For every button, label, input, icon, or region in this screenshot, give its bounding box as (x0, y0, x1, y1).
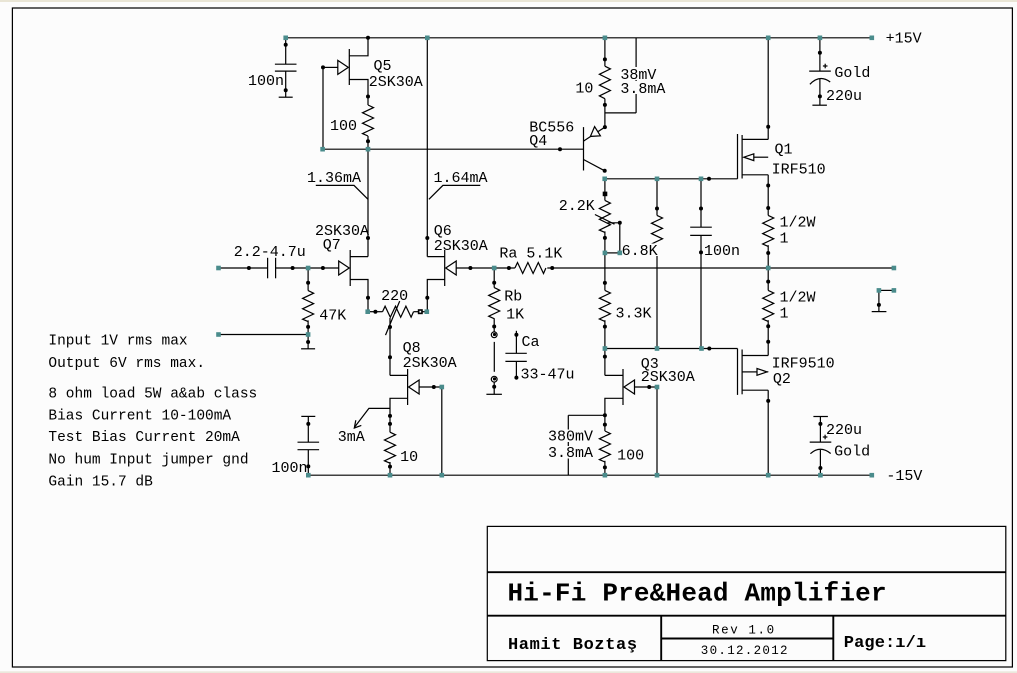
terminal T-bar output (872, 311, 887, 313)
wire 1ohm to output rail (767, 245, 769, 268)
net square -15 rail at Q2 (766, 473, 771, 478)
wire Q2 drain down to rail (767, 390, 769, 475)
svg-text:2SK30A: 2SK30A (403, 355, 457, 372)
svg-text:8 ohm load 5W a&ab class: 8 ohm load 5W a&ab class (48, 386, 257, 402)
net square -15 rail left end (306, 473, 311, 478)
resistor 1 1/2W upper (763, 215, 774, 246)
transistor Q1 bulk arrow (744, 154, 754, 161)
wire signal line left (input to Q7 gate) (219, 267, 268, 269)
terminal T-bar input ground (301, 348, 315, 350)
svg-text:1.36mA: 1.36mA (307, 170, 361, 187)
svg-text:2.2K: 2.2K (559, 198, 595, 215)
transistor Q3 2SK30A channel bar (622, 369, 624, 405)
svg-text:1K: 1K (506, 306, 524, 323)
junction dots 6.8K (655, 207, 659, 211)
resistor 10 top wire (604, 38, 606, 66)
label 38mV (619, 67, 658, 80)
svg-text:100: 100 (330, 118, 357, 135)
callout 1.64mA underline (429, 185, 480, 199)
junction dots input wire (247, 266, 251, 270)
svg-text:Q2: Q2 (773, 371, 791, 388)
svg-text:Q4: Q4 (529, 133, 547, 150)
svg-text:100n: 100n (704, 243, 740, 260)
terminal T-bar above Gold bottom (813, 416, 828, 418)
net square -15 rail at Q8 gate (440, 473, 445, 478)
transistor Q8 2SK30A channel bar (407, 369, 409, 405)
transistor Q4 emitter arrow (590, 127, 600, 137)
junction dots diff pair drains (366, 236, 370, 240)
wire output rail to 1ohm lower (767, 268, 769, 290)
svg-text:Q7: Q7 (323, 237, 341, 254)
output ground stub (878, 290, 880, 311)
transistor Q5 2SK30A channel bar (348, 49, 350, 85)
net square input gnd left (216, 332, 221, 337)
transistor Q2 bulk arrow (757, 369, 767, 376)
resistor 3.3K bottom wire (604, 320, 606, 348)
resistor 100 (Q5 source) (363, 105, 374, 136)
svg-text:Q5: Q5 (374, 58, 392, 75)
net square output rail end (892, 266, 897, 271)
connector circle Rb lower (491, 376, 497, 382)
trimmer 2.2K bottom wire (604, 231, 606, 253)
transistor Q3 gate wire (635, 386, 658, 388)
svg-text:Hamit Boztaş: Hamit Boztaş (508, 636, 638, 655)
wire +15 rail to Q1 drain (767, 38, 769, 140)
net square output rail at 1ohm (766, 266, 771, 271)
title block vertical divider left (660, 616, 662, 661)
net square +15 rail left end (283, 36, 288, 41)
wire Rb jumper (493, 342, 495, 372)
resistor 1 1/2W lower (763, 290, 774, 321)
wire signal line mid rail (Q6 gate to output) (456, 267, 515, 269)
probe square 220 right (418, 309, 423, 314)
resistor 10 (Q4 emitter) (599, 66, 610, 99)
junction dots Q4 (603, 125, 607, 129)
resistor 10 bottom wire (604, 99, 606, 127)
trimmer 2.2K probe square (603, 192, 608, 197)
capacitor Gold top plus sign (823, 65, 828, 67)
potentiometer 220 right lead (414, 311, 427, 313)
svg-text:3.3K: 3.3K (616, 305, 652, 322)
label 100n mid (703, 244, 741, 257)
top window strip (0, 0, 1017, 2)
transistor Q1 bulk lead (754, 156, 768, 158)
net square 47K top (306, 266, 311, 271)
transistor Q4 BC556 base bar (583, 127, 585, 170)
capacitor 100n bottom-left top wire (307, 416, 309, 442)
title block frame (487, 526, 1006, 660)
svg-text:2SK30A: 2SK30A (369, 74, 423, 91)
svg-text:Output 6V rms max.: Output 6V rms max. (48, 356, 205, 372)
svg-text:No hum Input jumper gnd: No hum Input jumper gnd (48, 453, 248, 469)
potentiometer 220 wiper strike (386, 301, 400, 335)
potentiometer 220 zigzag (383, 306, 414, 317)
net square 2.2K bottom right (618, 251, 623, 256)
wire 1ohm to Q2 source (767, 320, 769, 355)
svg-text:1: 1 (780, 306, 789, 323)
measurement bracket 38mV horizontal (605, 112, 636, 114)
label 3.8mA (619, 81, 666, 94)
wire 100 to rail (604, 461, 606, 475)
resistor 100 (Q3 source) (599, 431, 610, 462)
resistor Rb top wire (493, 268, 495, 288)
junction dots 220 (373, 310, 377, 314)
capacitor Ca plates (505, 352, 526, 354)
svg-text:Hi-Fi Pre&Head Amplifier: Hi-Fi Pre&Head Amplifier (508, 578, 887, 608)
net square -15 rail at Q3 gate (655, 473, 660, 478)
capacitor C 100n top-left wire upper (285, 38, 287, 64)
junction dots 47K (306, 281, 310, 285)
net square Q3 gate (655, 385, 660, 390)
resistor 6.8K top wire (656, 179, 658, 216)
wire signal line mid rail right of Ra (547, 267, 894, 269)
transistor Q4 collector diagonal (584, 160, 605, 171)
net square Q2 bus at 6.8K (655, 346, 660, 351)
junction dots Rb (492, 281, 496, 285)
capacitor Gold top straight plate (809, 70, 831, 72)
junction dots Q3 source (603, 413, 607, 417)
svg-text:IRF510: IRF510 (772, 162, 826, 179)
wire cap to gate (276, 267, 339, 269)
resistor 3.3K (599, 290, 610, 321)
svg-text:380mV: 380mV (548, 429, 593, 446)
svg-text:Gold: Gold (834, 65, 870, 82)
title block divider row1 (487, 571, 1006, 573)
svg-text:Q1: Q1 (775, 141, 793, 158)
svg-text:Page:ı/ı: Page:ı/ı (844, 634, 926, 653)
resistor 10 (Q8 source) (385, 432, 396, 463)
svg-text:33-47u: 33-47u (521, 367, 575, 384)
net square input gnd right (306, 332, 311, 337)
transistor Q5 drain lead (349, 38, 368, 56)
transistor Q5 gate triangle (338, 60, 349, 74)
resistor 6.8K bottom wire (656, 245, 658, 348)
capacitor 100n mid bottom wire (700, 235, 702, 348)
measurement bracket 38mV vertical (635, 38, 637, 113)
wire Q1 gate bus y179 (605, 178, 738, 180)
wire Q5 gate vertical (322, 67, 324, 149)
wire +15V rail (286, 37, 872, 39)
net square +15 rail at 10 (603, 36, 608, 41)
capacitor 100n mid top wire (700, 179, 702, 227)
trimmer 2.2K top wire (604, 179, 606, 201)
terminal T-bar below 100n top-left (279, 96, 293, 98)
net square -15 rail at Gold (818, 473, 823, 478)
transistor Q1 source lead (742, 174, 768, 176)
net square +15 rail right end (870, 36, 875, 41)
svg-text:-15V: -15V (886, 468, 922, 485)
terminal T-bar below Gold top (812, 104, 827, 106)
transistor Q2 IRF9510 gate bar (737, 349, 739, 395)
transistor Q7 gate triangle (339, 261, 350, 275)
net square -15 rail at 10 (388, 473, 393, 478)
net square Q2 bus at 3.3K (603, 346, 608, 351)
net square +15 rail at Gold (818, 36, 823, 41)
capacitor Gold 220u bottom: top wire (819, 417, 821, 443)
net square +15 rail at Q6 (425, 36, 430, 41)
measurement bracket 380mV vertical (567, 415, 569, 475)
net square Q2 bus at 100n (699, 346, 704, 351)
junction dot Q1 gate bus (707, 177, 711, 181)
transistor Q2 channel bar (741, 350, 743, 395)
wire Q1 source down (767, 175, 769, 216)
capacitor 2.2-4.7u plates (267, 258, 269, 279)
transistor Q6 source lead (427, 280, 444, 312)
potentiometer 220 wiper tap (389, 318, 391, 357)
transistor Q2 source lead (742, 355, 768, 357)
terminal T-bar Rb (486, 393, 502, 395)
svg-text:3.8mA: 3.8mA (548, 445, 593, 462)
svg-text:Gold: Gold (834, 444, 870, 461)
resistor 3.3K top wire (604, 253, 606, 291)
net square Q1 bus at 6.8K (655, 177, 660, 182)
junction dots on 100n top-left (284, 43, 288, 47)
callout 3mA arrowhead (354, 420, 361, 428)
svg-text:2SK30A: 2SK30A (434, 238, 488, 255)
svg-text:1/2W: 1/2W (780, 215, 816, 232)
transistor Q3 source lead (605, 398, 623, 431)
title block divider row2 (487, 615, 1006, 617)
ground stub below input jumper (307, 335, 309, 349)
junction dots resistor 10 (603, 57, 607, 61)
resistor 47K top wire (307, 268, 309, 291)
net square Q1 bus at 100n (699, 177, 704, 182)
resistor 6.8K (652, 215, 663, 246)
wire 220 wiper to Q8 drain (389, 357, 391, 375)
transistor Q1 channel bar (741, 135, 743, 179)
capacitor C 100n top-left plates (275, 63, 297, 65)
transistor Q7 drain lead (350, 256, 368, 258)
capacitor 100n mid plates (690, 226, 712, 228)
junction dots 3.3K (603, 281, 607, 285)
svg-text:100: 100 (617, 448, 644, 465)
capacitor Gold bottom straight plate (810, 441, 832, 443)
wire Q3 gate down to rail (656, 387, 658, 475)
net square -15 rail at 100 (603, 473, 608, 478)
trimmer 2.2K wiper arm (608, 223, 620, 253)
wire input ground jumper (219, 334, 309, 336)
svg-text:Ca: Ca (522, 334, 540, 351)
transistor Q8 gate wire (419, 386, 442, 388)
transistor Q7 source lead (350, 280, 368, 312)
transistor Q5 gate wire (323, 66, 338, 68)
svg-text:1/2W: 1/2W (780, 290, 816, 307)
transistor Q8 gate triangle (409, 380, 420, 394)
transistor Q1 drain lead (742, 138, 768, 140)
wire Q8 gate down to rail (441, 387, 443, 475)
junction dot Q2 gate bus (707, 347, 711, 351)
junction dots Q5 (321, 65, 325, 69)
wire Q6 drain vertical (426, 38, 428, 257)
transistor Q4 emitter diagonal (584, 127, 605, 141)
transistor Q3 drain lead (605, 374, 623, 376)
net square input (216, 266, 221, 271)
svg-text:2.2-4.7u: 2.2-4.7u (234, 244, 306, 261)
transistor Q3 gate triangle (624, 380, 635, 394)
capacitor Gold top arc plate (810, 79, 830, 85)
capacitor Gold 220u top: wire from rail (819, 38, 821, 71)
net square 2.2K bottom left (603, 251, 608, 256)
svg-text:3mA: 3mA (338, 429, 365, 446)
net square +15 rail at Q1 (766, 36, 771, 41)
label 3.8mA (Q3) (547, 446, 596, 459)
svg-text:220: 220 (381, 288, 408, 305)
transistor Q6 2SK30A channel bar (444, 250, 446, 286)
callout 1.36mA underline (316, 185, 368, 199)
ground stub below Rb (493, 382, 495, 394)
transistor Q6 gate triangle (446, 261, 457, 275)
capacitor 100n bottom-left plates (298, 441, 320, 443)
resistor Rb 1K (489, 288, 500, 319)
svg-text:Input 1V rms max: Input 1V rms max (48, 334, 188, 350)
net square gate bus left (320, 147, 325, 152)
trimmer 2.2K zigzag (599, 200, 610, 232)
trimmer 2.2K wiper bottom link (605, 252, 620, 254)
svg-text:220u: 220u (826, 422, 862, 439)
wire 100 to bus (367, 136, 369, 149)
svg-text:30.12.2012: 30.12.2012 (701, 644, 789, 658)
transistor Q2 bulk arrow tail (767, 371, 768, 373)
svg-text:Ra 5.1K: Ra 5.1K (499, 246, 562, 263)
svg-text:3.8mA: 3.8mA (620, 81, 665, 98)
svg-text:+15V: +15V (886, 30, 922, 47)
transistor Q6 drain lead (427, 256, 444, 258)
net square Rb top (492, 266, 497, 271)
svg-text:Rev 1.0: Rev 1.0 (712, 624, 776, 638)
resistor Ra 5.1K zigzag (515, 263, 546, 274)
transistor Q8 drain lead (390, 374, 408, 376)
svg-text:1.64mA: 1.64mA (434, 170, 488, 187)
junction dots Q8 source (388, 414, 392, 418)
junction dots 2.2K (618, 221, 622, 225)
svg-text:6.8K: 6.8K (622, 243, 658, 260)
svg-text:2SK30A: 2SK30A (641, 369, 695, 386)
wire Q2 gate bus y348 (605, 348, 737, 350)
wire Q7 drain vertical (367, 149, 369, 256)
net square Q1 bus at 2.2K (602, 177, 607, 182)
svg-text:Test Bias Current 20mA: Test Bias Current 20mA (48, 430, 240, 446)
wire upper gate bus y149 (323, 148, 584, 150)
transistor Q2 bulk lead (742, 371, 757, 373)
svg-text:10: 10 (400, 449, 418, 466)
net square 220 right (425, 309, 430, 314)
capacitor 100n bottom-left bottom wire (307, 450, 309, 476)
svg-text:Bias Current 10-100mA: Bias Current 10-100mA (48, 408, 231, 424)
transistor Q8 source lead (390, 398, 408, 432)
connector circle Rb upper (491, 332, 497, 338)
transistor Q5 source lead (349, 80, 368, 106)
transistor Q1 IRF510 gate bar (737, 134, 739, 179)
capacitor Gold top bottom wire (819, 79, 821, 105)
measurement bracket 380mV horizontal (568, 414, 605, 416)
capacitor Gold bottom plus sign (823, 436, 828, 438)
svg-text:220u: 220u (826, 88, 862, 105)
junction dots 100n mid (699, 207, 703, 211)
capacitor C 100n top-left wire lower (285, 71, 287, 97)
capacitor Ca bottom stub (515, 361, 517, 379)
wire -15V rail (308, 474, 872, 476)
net square output stub left (877, 288, 882, 293)
resistor 47K (303, 291, 314, 322)
title block rev/date divider (661, 638, 833, 640)
potentiometer 220 left lead (368, 311, 383, 313)
title block vertical divider right (832, 616, 834, 661)
svg-text:47K: 47K (319, 307, 346, 324)
svg-text:1: 1 (780, 231, 789, 248)
capacitor Gold bottom arc plate (810, 449, 830, 453)
transistor Q7 2SK30A channel bar (349, 250, 351, 286)
trimmer 2.2K strike (595, 215, 615, 225)
net square 220 left (365, 309, 370, 314)
svg-text:Rb: Rb (504, 288, 522, 305)
capacitor Gold bottom wire to rail (819, 450, 821, 475)
junction dots mid rail (468, 266, 472, 270)
svg-text:Gain 15.7 dB: Gain 15.7 dB (48, 475, 153, 491)
resistor 47K bottom wire (307, 320, 309, 334)
bottom window strip (0, 671, 1017, 673)
net square output stub right (892, 288, 897, 293)
svg-text:100n: 100n (272, 460, 308, 477)
svg-text:10: 10 (575, 80, 593, 97)
label 380mV (547, 430, 596, 443)
net square gate bus at 100 (366, 147, 371, 152)
callout 3mA leader (355, 408, 390, 427)
net square -15 rail right end (870, 473, 875, 478)
terminal T-bar above 100n bottom-left (301, 415, 315, 417)
transistor Q2 drain lead (742, 389, 768, 391)
wire 3.3K bottom to Q3 drain (604, 349, 606, 376)
capacitor Ca top stub (515, 331, 517, 354)
svg-text:100n: 100n (248, 73, 284, 90)
net square Q8 gate (440, 385, 445, 390)
svg-text:IRF9510: IRF9510 (772, 355, 835, 372)
label 6.8K (621, 244, 661, 257)
resistor Rb bottom wire (493, 318, 495, 332)
wire 10 to rail (389, 462, 391, 475)
output connector horizontal link (879, 289, 894, 291)
